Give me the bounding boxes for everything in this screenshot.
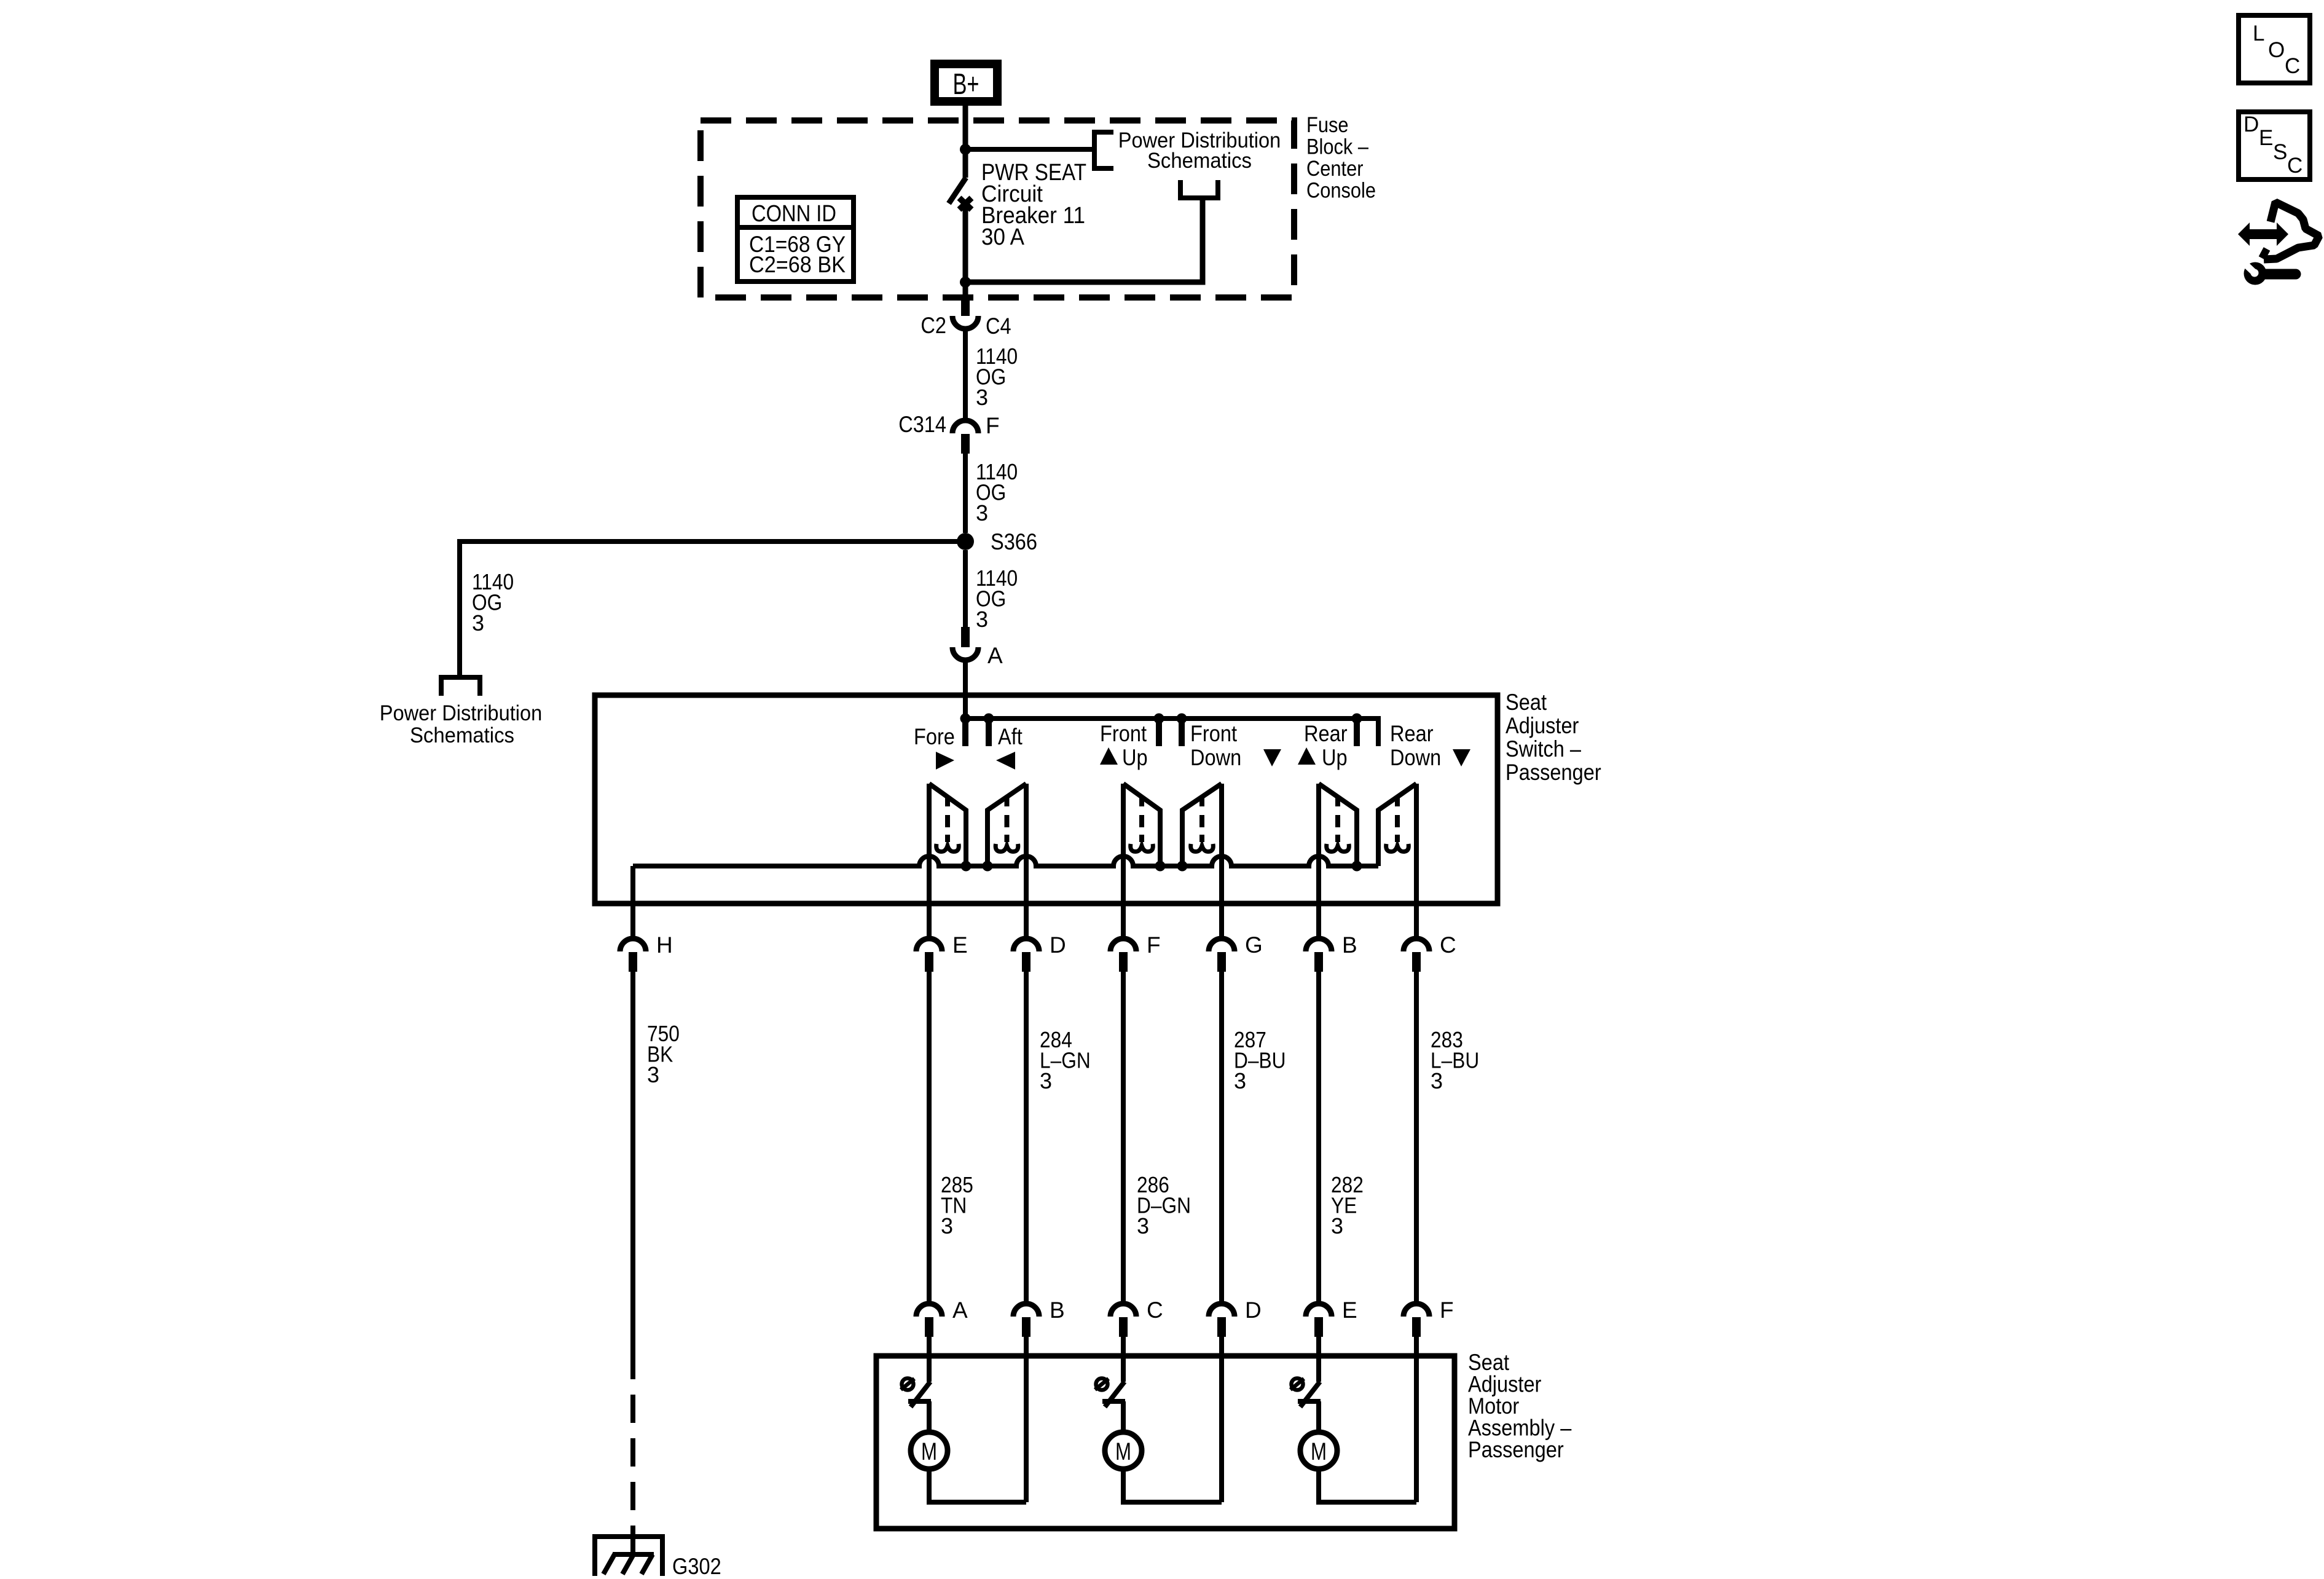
wire into motor box x=1828 bbox=[1121, 1335, 1126, 1382]
connector pin C (switch) bbox=[1403, 932, 1456, 972]
svg-text:Passenger: Passenger bbox=[1468, 1437, 1564, 1462]
svg-text:Front: Front bbox=[1190, 721, 1238, 746]
motor 1 loop wire bbox=[929, 1469, 1026, 1502]
svg-text:3: 3 bbox=[1040, 1068, 1052, 1093]
motor 2 loop wire bbox=[1123, 1469, 1222, 1502]
motor M1 bbox=[911, 1432, 948, 1469]
off-page reference bracket: Power Distribution Schematics (left) bbox=[380, 677, 543, 747]
svg-text:D: D bbox=[2244, 112, 2259, 136]
connector pin D (switch) bbox=[1013, 932, 1066, 972]
svg-text:A: A bbox=[987, 643, 1003, 668]
motor return wire x=1670 bbox=[1024, 1335, 1029, 1502]
svg-text:Fuse: Fuse bbox=[1306, 113, 1349, 137]
value label 1140 OG 3 (branch) bbox=[472, 569, 514, 636]
connector pin G (switch) bbox=[1209, 932, 1263, 972]
wire 1140 OG segment 3 bbox=[963, 550, 968, 627]
value label 750 BK 3 bbox=[647, 1021, 680, 1087]
wire connector A to switch box bbox=[963, 661, 968, 719]
connector C2 / C4 (fuse block output) bbox=[921, 296, 1011, 339]
thermal breaker 3 in motor assembly bbox=[1290, 1379, 1321, 1430]
svg-text:S366: S366 bbox=[991, 529, 1037, 554]
value label 1140 OG 3 (seg 2) bbox=[976, 459, 1018, 526]
switch fixed contact bars bbox=[965, 719, 1357, 746]
svg-text:F: F bbox=[986, 413, 1000, 438]
motor M3 bbox=[1300, 1432, 1337, 1469]
label Rear Up with arrow bbox=[1298, 721, 1348, 770]
connector pin H (switch) bbox=[620, 932, 673, 972]
off-page return bracket (to Power Distribution Schematics) bbox=[1180, 180, 1218, 198]
svg-text:Power Distribution: Power Distribution bbox=[380, 701, 543, 725]
svg-text:C: C bbox=[2287, 154, 2302, 178]
connector pin E (switch) bbox=[916, 932, 968, 972]
wire junction to off-page bracket bbox=[965, 147, 1094, 152]
wire 750 BK (dashed part) bbox=[630, 1367, 635, 1537]
legend box LOC bbox=[2239, 15, 2310, 83]
svg-text:Passenger: Passenger bbox=[1505, 760, 1601, 785]
svg-text:B: B bbox=[1342, 932, 1357, 958]
label Fore with arrow bbox=[914, 724, 955, 770]
svg-text:Seat: Seat bbox=[1505, 690, 1547, 715]
svg-text:Switch –: Switch – bbox=[1505, 736, 1581, 762]
svg-text:3: 3 bbox=[976, 500, 988, 526]
svg-text:Rear: Rear bbox=[1390, 721, 1434, 746]
value label 285 TN 3 bbox=[941, 1172, 973, 1238]
svg-text:G: G bbox=[1245, 932, 1263, 958]
wire 1140 OG segment 2 bbox=[963, 453, 968, 533]
svg-text:O: O bbox=[2268, 38, 2285, 62]
svg-text:Schematics: Schematics bbox=[410, 723, 514, 747]
value label 1140 OG 3 (seg 3) bbox=[976, 565, 1018, 632]
value label 282 YE 3 bbox=[1331, 1172, 1364, 1238]
connector pin C (motor) bbox=[1110, 1297, 1163, 1337]
svg-text:Up: Up bbox=[1322, 745, 1348, 770]
label Front Down with arrow bbox=[1190, 721, 1281, 770]
legend box DESC bbox=[2239, 112, 2310, 179]
svg-text:Aft: Aft bbox=[998, 724, 1023, 749]
wire 1140 OG segment 1 bbox=[963, 330, 968, 419]
value label 287 D-BU 3 bbox=[1234, 1027, 1286, 1093]
node: breaker feed junction bbox=[960, 144, 971, 155]
nodes: top bus junctions bbox=[960, 714, 1362, 724]
value label 283 L-BU 3 bbox=[1431, 1027, 1479, 1093]
switch blade Rear Up bbox=[1319, 784, 1357, 866]
svg-text:B: B bbox=[1050, 1297, 1065, 1323]
svg-text:Schematics: Schematics bbox=[1147, 149, 1252, 173]
label Front Up with arrow bbox=[1100, 721, 1148, 770]
switch blade Fore bbox=[929, 784, 966, 866]
svg-text:Block –: Block – bbox=[1306, 135, 1368, 159]
service icon: vehicle with arrow and wrench bbox=[2238, 202, 2319, 285]
svg-text:3: 3 bbox=[976, 607, 988, 632]
seat adjuster motor assembly housing: Seat Adjuster Motor Assembly - Passenger bbox=[876, 1350, 1572, 1529]
connector pin A (motor) bbox=[916, 1297, 968, 1337]
svg-text:CONN ID: CONN ID bbox=[752, 201, 836, 227]
svg-text:S: S bbox=[2273, 140, 2287, 164]
svg-text:E: E bbox=[1342, 1297, 1357, 1323]
svg-text:3: 3 bbox=[1431, 1068, 1443, 1093]
switch common bus (bottom) with wire hops bbox=[633, 856, 1378, 866]
svg-text:Center: Center bbox=[1306, 157, 1364, 181]
switch B+ bus (top) bbox=[965, 719, 1378, 746]
motor 3 loop wire bbox=[1319, 1469, 1416, 1502]
wire into motor box x=2146 bbox=[1316, 1335, 1321, 1382]
svg-text:Down: Down bbox=[1390, 745, 1441, 770]
wire bus to connector H bbox=[630, 866, 635, 937]
switch blade Rear Down bbox=[1378, 784, 1416, 866]
off-page reference bracket: Power Distribution Schematics (feed) bbox=[1094, 128, 1281, 173]
svg-text:M: M bbox=[1115, 1438, 1131, 1465]
motor return wire x=2305 bbox=[1414, 1335, 1419, 1502]
wire 750 BK (solid part) bbox=[630, 972, 635, 1367]
svg-text:F: F bbox=[1147, 932, 1161, 958]
motor M2 bbox=[1105, 1432, 1142, 1469]
svg-text:Rear: Rear bbox=[1304, 721, 1348, 746]
value label 286 D-GN 3 bbox=[1137, 1172, 1191, 1238]
svg-text:F: F bbox=[1440, 1297, 1454, 1323]
svg-text:Adjuster: Adjuster bbox=[1505, 713, 1579, 738]
svg-text:M: M bbox=[921, 1438, 937, 1465]
svg-text:C314: C314 bbox=[898, 412, 946, 437]
svg-text:30 A: 30 A bbox=[981, 224, 1025, 250]
svg-text:C: C bbox=[1440, 932, 1456, 958]
label Aft with arrow bbox=[996, 724, 1023, 770]
svg-text:E: E bbox=[2259, 126, 2273, 150]
wire B+ to fuse block bbox=[963, 106, 968, 149]
svg-text:D: D bbox=[1245, 1297, 1262, 1323]
connector pin F (switch) bbox=[1110, 932, 1161, 972]
svg-text:C4: C4 bbox=[986, 313, 1011, 339]
connector pin E (motor) bbox=[1306, 1297, 1357, 1337]
node: return junction bbox=[960, 277, 971, 288]
svg-text:Down: Down bbox=[1190, 745, 1241, 770]
svg-text:M: M bbox=[1311, 1438, 1327, 1465]
svg-text:L: L bbox=[2253, 22, 2264, 45]
connector C314 pin F bbox=[898, 412, 999, 454]
ground G302 bbox=[595, 1537, 721, 1579]
svg-text:E: E bbox=[952, 932, 968, 958]
svg-text:3: 3 bbox=[647, 1062, 659, 1087]
svg-text:Console: Console bbox=[1306, 179, 1376, 203]
svg-text:G302: G302 bbox=[672, 1554, 721, 1579]
wire branch to power distribution (left) bbox=[460, 541, 965, 677]
nodes: bottom bus junctions bbox=[961, 861, 1362, 872]
wire harness runs bbox=[929, 972, 1416, 1302]
svg-text:C: C bbox=[1147, 1297, 1163, 1323]
svg-text:3: 3 bbox=[1331, 1213, 1343, 1238]
svg-text:A: A bbox=[952, 1297, 968, 1323]
connector pin B (motor) bbox=[1013, 1297, 1065, 1337]
splice S366 bbox=[957, 529, 1037, 554]
svg-text:Fore: Fore bbox=[914, 724, 955, 749]
switch blade Front Down bbox=[1182, 784, 1222, 866]
circuit breaker CB11 blade and contact bbox=[949, 149, 972, 296]
label Rear Down with arrow bbox=[1390, 721, 1470, 770]
switch blade Front Up bbox=[1123, 784, 1160, 866]
wire return from schematics to main line bbox=[968, 198, 1203, 282]
svg-text:D: D bbox=[1050, 932, 1066, 958]
svg-text:Front: Front bbox=[1100, 721, 1147, 746]
svg-text:3: 3 bbox=[1234, 1068, 1246, 1093]
value label: PWR SEAT Circuit Breaker 11 30 A bbox=[981, 160, 1086, 250]
svg-text:H: H bbox=[656, 932, 673, 958]
wire into motor box x=1512 bbox=[927, 1335, 932, 1382]
svg-text:3: 3 bbox=[976, 385, 988, 410]
svg-text:3: 3 bbox=[472, 610, 484, 636]
power symbol B+ battery feed bbox=[935, 64, 997, 101]
value label 1140 OG 3 (seg 1) bbox=[976, 344, 1018, 410]
value label 284 L-GN 3 bbox=[1040, 1027, 1091, 1093]
svg-text:C2=68 BK: C2=68 BK bbox=[749, 252, 846, 277]
svg-text:Up: Up bbox=[1122, 745, 1148, 770]
connector pin F (motor) bbox=[1403, 1297, 1454, 1337]
connector A (switch feed) bbox=[952, 627, 1003, 668]
svg-text:C2: C2 bbox=[921, 313, 946, 338]
motor return wire x=1988 bbox=[1219, 1335, 1224, 1502]
svg-text:3: 3 bbox=[1137, 1213, 1149, 1238]
thermal breaker 1 in motor assembly bbox=[901, 1379, 931, 1430]
connector pin D (motor) bbox=[1209, 1297, 1262, 1337]
switch output wires bbox=[929, 784, 1416, 937]
CONN ID table C1=68 GY C2=68 BK bbox=[737, 197, 854, 282]
thermal breaker 2 in motor assembly bbox=[1095, 1379, 1125, 1430]
connector pin B (switch) bbox=[1306, 932, 1357, 972]
seat adjuster switch housing: Seat Adjuster Switch - Passenger bbox=[595, 690, 1601, 904]
svg-text:3: 3 bbox=[941, 1213, 953, 1238]
svg-text:B+: B+ bbox=[953, 68, 979, 101]
svg-text:C: C bbox=[2285, 54, 2300, 78]
fuse block housing (dashed): Fuse Block - Center Console bbox=[701, 113, 1376, 297]
switch blade Aft bbox=[987, 784, 1026, 866]
